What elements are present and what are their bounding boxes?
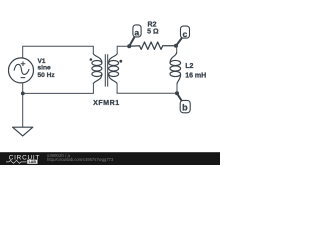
wire top rail left (V1 top to XFMR1 primary top) [23, 46, 94, 58]
transformer core [105, 54, 107, 86]
node a box [133, 25, 141, 37]
svg-text:LAB: LAB [29, 160, 37, 164]
node b box [180, 100, 190, 112]
wire secondary top to node a junction [117, 46, 129, 54]
svg-text:5 Ω: 5 Ω [147, 29, 159, 36]
node b pointer [177, 93, 182, 101]
node c junction [174, 44, 178, 48]
node a pointer [129, 37, 134, 46]
node c pointer [176, 38, 182, 46]
svg-text:50 Hz: 50 Hz [38, 72, 56, 79]
voltage source V1 [9, 58, 34, 83]
svg-text:http:∕∕circuitlab.com∕c4957s7w: http:∕∕circuitlab.com∕c4957s7wgg773 [47, 157, 114, 162]
ground [13, 127, 33, 136]
junction (V1- / ground / primary) [21, 92, 25, 96]
node a junction [127, 44, 131, 48]
wire bottom rail left (V1 bottom, junction, to XFMR1 primary bottom) [23, 83, 94, 127]
transformer primary phase dot [90, 58, 93, 61]
resistor R2 [129, 42, 176, 49]
footer logo zigzag [6, 160, 27, 163]
wire secondary bottom rail to node b junction [117, 84, 177, 94]
svg-text:b: b [182, 103, 188, 113]
svg-text:sine: sine [38, 65, 52, 72]
svg-text:16 mH: 16 mH [185, 72, 206, 79]
footer bar [0, 152, 220, 165]
transformer XFMR1 secondary coil [109, 53, 119, 84]
node c box [181, 26, 190, 38]
footer logo LAB box [27, 160, 37, 164]
svg-text:c: c [183, 29, 188, 39]
transformer secondary phase dot [119, 60, 122, 63]
transformer XFMR1 primary coil [92, 53, 102, 84]
svg-text:L2: L2 [185, 63, 193, 70]
inductor L2 [175, 46, 178, 53]
node b junction [175, 91, 179, 95]
svg-text:a: a [134, 27, 139, 37]
svg-text:XFMR1: XFMR1 [93, 99, 120, 107]
